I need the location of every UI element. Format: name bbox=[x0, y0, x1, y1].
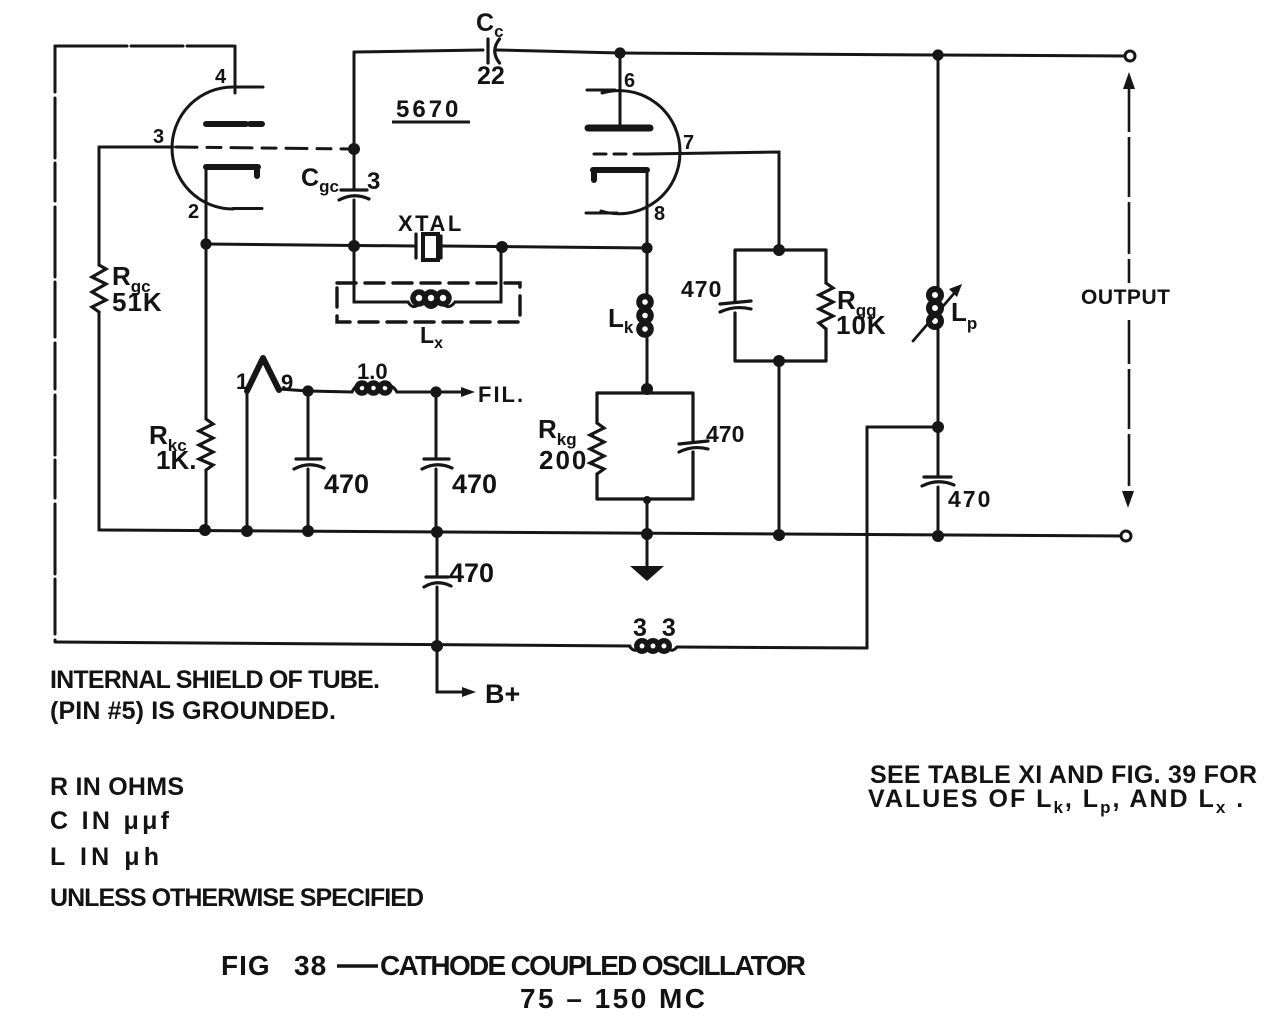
inductor 1.0 (FIL choke) bbox=[352, 383, 397, 393]
svg-text:OUTPUT: OUTPUT bbox=[1081, 286, 1172, 309]
svg-text:8: 8 bbox=[654, 203, 665, 225]
svg-text:9: 9 bbox=[281, 370, 293, 395]
wire grid pin3 to left rail2 bbox=[99, 146, 173, 149]
junction ground node / ground bus bbox=[641, 528, 653, 540]
wire top bus y52 bbox=[354, 50, 1126, 56]
svg-text:L IN μh: L IN μh bbox=[50, 843, 159, 871]
wire B+ bus right segment bbox=[677, 647, 867, 648]
junction cathode V2 node bbox=[641, 242, 652, 253]
svg-text:470: 470 bbox=[324, 469, 369, 499]
svg-text:Lp: Lp bbox=[951, 297, 977, 333]
resistor Rkg 200 zigzag bbox=[590, 423, 604, 474]
svg-text:(PIN #5) IS GROUNDED.: (PIN #5) IS GROUNDED. bbox=[50, 697, 336, 725]
svg-text:1K.: 1K. bbox=[156, 445, 196, 475]
svg-text:Lx: Lx bbox=[420, 322, 443, 352]
resistor Rgg 10K zigzag bbox=[819, 283, 833, 329]
svg-text:UNLESS OTHERWISE SPECIFIED: UNLESS OTHERWISE SPECIFIED bbox=[50, 884, 424, 912]
capacitor 470 (grid network, on Rgg rect) bbox=[720, 301, 751, 312]
svg-text:7: 7 bbox=[683, 132, 694, 154]
crystal XTAL symbol bbox=[416, 234, 441, 258]
svg-text:470: 470 bbox=[706, 421, 744, 447]
svg-text:INTERNAL SHIELD OF TUBE.: INTERNAL SHIELD OF TUBE. bbox=[50, 666, 380, 694]
tube V1 plate lead pin4 bbox=[234, 46, 263, 93]
svg-text:470: 470 bbox=[452, 469, 497, 499]
junction B+ node bbox=[431, 640, 443, 652]
svg-text:200: 200 bbox=[539, 445, 588, 475]
wire FIL line bbox=[308, 391, 464, 392]
capacitor Cgc symbol bbox=[339, 190, 369, 200]
wire vertical x354 Cgc branch bbox=[353, 52, 356, 246]
B+ arrowhead bbox=[462, 687, 476, 697]
junction heater pin1 / ground bus bbox=[241, 525, 253, 537]
wire B+ bus bottom bbox=[55, 642, 630, 646]
resistor Rgc 51K zigzag bbox=[92, 265, 106, 312]
svg-text:CATHODE COUPLED OSCILLATOR: CATHODE COUPLED OSCILLATOR bbox=[380, 950, 806, 981]
junction at Lp branch / top bus bbox=[932, 49, 943, 60]
junction FIL node left bbox=[302, 385, 313, 396]
svg-text:Cc: Cc bbox=[476, 9, 504, 41]
wire top-left horizontal bbox=[55, 45, 235, 48]
wire heater leg pin9 to FIL node bbox=[279, 389, 308, 391]
svg-text:FIL.: FIL. bbox=[478, 382, 525, 407]
svg-text:51K: 51K bbox=[112, 287, 163, 317]
wire right riser x867 bbox=[866, 427, 869, 648]
capacitor 470 (B+ decoupling) bbox=[424, 577, 451, 587]
junction XTAL left node bbox=[348, 240, 360, 252]
svg-text:6: 6 bbox=[624, 70, 635, 92]
inductor Lp arrow bbox=[913, 290, 957, 341]
wire second rail x99 bbox=[98, 147, 101, 530]
wire heater leg pin1 bbox=[246, 391, 249, 531]
svg-text:22: 22 bbox=[477, 62, 505, 90]
wire Lp branch x938 bbox=[937, 55, 940, 536]
heater filament pins 1-9 bbox=[247, 358, 279, 391]
svg-text:1: 1 bbox=[236, 369, 248, 394]
output terminal top bbox=[1125, 51, 1135, 61]
junction bypass cap1 / ground bus bbox=[302, 525, 314, 537]
svg-text:4: 4 bbox=[215, 66, 227, 88]
tube V1 cathode bbox=[206, 167, 258, 176]
svg-text:VALUES OF Lk, Lp, AND Lx .: VALUES OF Lk, Lp, AND Lx . bbox=[868, 785, 1245, 817]
inductor 3.3 coil bbox=[630, 641, 677, 651]
wire bypass cap1 branch x308 bbox=[307, 391, 310, 531]
svg-text:XTAL: XTAL bbox=[398, 211, 464, 236]
junction Lp tap node bbox=[932, 421, 944, 433]
wire plate lead right tube bbox=[619, 53, 622, 125]
tube V2 envelope (right triode) bbox=[586, 90, 680, 214]
capacitor 470 (cathode network, on Rkg rect) bbox=[679, 441, 708, 452]
capacitor 470 (output) bbox=[922, 477, 954, 486]
svg-text:3: 3 bbox=[367, 168, 380, 195]
capacitor Cc symbol bbox=[488, 39, 500, 63]
svg-text:470: 470 bbox=[681, 276, 722, 302]
wire left rail vertical bbox=[54, 46, 57, 641]
wire pin7 to Rgg network bbox=[646, 152, 779, 250]
svg-text:FIG: FIG bbox=[221, 950, 271, 981]
svg-text:75 – 150 MC: 75 – 150 MC bbox=[520, 983, 705, 1014]
Rkg network rectangle bbox=[597, 393, 693, 499]
Rgg network rectangle bbox=[735, 250, 826, 361]
inductor Lx coil bbox=[408, 292, 455, 308]
svg-text:470: 470 bbox=[948, 486, 992, 512]
tube V2 plate bar bbox=[588, 125, 650, 132]
Lx dashed box bbox=[337, 283, 520, 322]
svg-text:1.0: 1.0 bbox=[357, 359, 388, 384]
wire Rkg to ground bus bbox=[646, 499, 649, 534]
capacitor 470 (heater bypass 1) bbox=[294, 459, 324, 469]
svg-text:38: 38 bbox=[294, 950, 327, 981]
svg-text:Cgc: Cgc bbox=[301, 164, 339, 196]
svg-text:Rkg: Rkg bbox=[538, 414, 577, 449]
svg-text:B+: B+ bbox=[485, 679, 520, 709]
wire Lp tap to riser bbox=[867, 426, 938, 429]
svg-text:3: 3 bbox=[153, 126, 164, 148]
junction decoupling branch / ground bus bbox=[431, 526, 443, 538]
wire ground bus y530 bbox=[99, 530, 1126, 536]
junction Rkg network bottom bbox=[643, 496, 651, 504]
wire grid pin7 right tube bbox=[594, 153, 646, 156]
capacitor 470 (heater bypass 2) bbox=[422, 459, 452, 469]
wire Rgg network to bus bbox=[778, 361, 781, 535]
tube V2 grid dash inside handled above; cathode bbox=[593, 170, 647, 180]
svg-text:R IN OHMS: R IN OHMS bbox=[50, 773, 184, 801]
wire B+ stub bbox=[437, 646, 463, 692]
junction Rgg network bottom bbox=[773, 355, 785, 367]
resistor Rkc 1K zigzag bbox=[199, 419, 213, 470]
junction grid V1 / Cgc branch bbox=[348, 143, 360, 155]
wire cathode lead left tube x206 bbox=[205, 168, 208, 530]
wire bypass cap2 branch x436 bbox=[435, 392, 438, 531]
junction FIL node right bbox=[430, 386, 441, 397]
junction XTAL right node bbox=[496, 241, 508, 253]
junction output cap / ground bus bbox=[932, 530, 944, 542]
svg-text:5670: 5670 bbox=[396, 96, 461, 123]
junction Lk / Rkg network top bbox=[641, 383, 653, 395]
wire decoupling cap branch x437 bbox=[436, 531, 439, 646]
junction cathode V1 node bbox=[200, 238, 211, 249]
tube V1 plate bar bbox=[206, 121, 262, 127]
output arrow line and heads bbox=[1128, 88, 1131, 492]
FIL arrowhead bbox=[461, 387, 475, 397]
junction Rkc / ground bus bbox=[199, 524, 211, 536]
tube V1 envelope (left triode) bbox=[172, 87, 262, 209]
junction at plate V2 / top bus bbox=[614, 47, 625, 58]
inductor Lp coil (variable) bbox=[929, 289, 941, 327]
junction Rgg network top bbox=[773, 244, 785, 256]
junction Rgg leg / ground bus bbox=[773, 529, 785, 541]
wire grid dashed left tube bbox=[176, 147, 350, 149]
output terminal bottom bbox=[1121, 531, 1131, 541]
svg-text:2: 2 bbox=[188, 201, 199, 223]
svg-text:470: 470 bbox=[449, 558, 494, 588]
svg-text:Lk: Lk bbox=[608, 303, 634, 337]
inductor Lk coil bbox=[639, 296, 651, 335]
svg-text:10K: 10K bbox=[836, 310, 887, 340]
wire cathode line y245 bbox=[206, 244, 647, 248]
wire Lx left leg bbox=[354, 246, 408, 302]
svg-text:3 3: 3 3 bbox=[633, 614, 680, 642]
ground symbol bbox=[646, 534, 649, 566]
wire cathode lead right tube x647 bbox=[646, 172, 649, 389]
svg-text:C IN μμf: C IN μμf bbox=[50, 807, 170, 835]
wire Lx right leg bbox=[455, 247, 501, 302]
